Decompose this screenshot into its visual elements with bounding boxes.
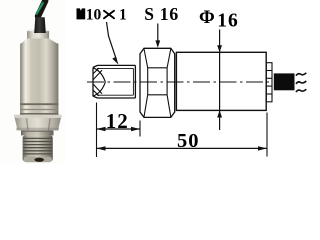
thread root lines <box>97 68 133 95</box>
svg-text:10: 10 <box>86 6 102 23</box>
photo: hex nut <box>14 115 62 130</box>
photo: top cap cylinder <box>27 30 49 40</box>
extension line right of 50 dim <box>266 113 268 157</box>
port cone <box>93 68 105 96</box>
svg-text:Φ: Φ <box>199 7 215 28</box>
black cable boot <box>274 73 295 90</box>
leader for S 16 <box>157 24 159 45</box>
photo: green cable with black sheath <box>37 1 46 16</box>
cable squiggles <box>296 73 306 92</box>
cone hatch <box>93 68 102 96</box>
svg-text:16: 16 <box>217 11 239 32</box>
extension line left (shared by 12 and 50) <box>96 103 98 158</box>
connector step column <box>266 63 272 102</box>
photo: threaded stud <box>23 135 53 161</box>
main body rectangle <box>176 52 266 110</box>
svg-text:1: 1 <box>119 6 127 23</box>
extension line right of 12 dim <box>139 121 141 137</box>
photo: black cable gland <box>34 17 46 33</box>
phi16 dimension line with arrows <box>219 30 221 131</box>
svg-text:50: 50 <box>177 130 200 152</box>
leader for M10x1 <box>107 22 117 60</box>
svg-text:16: 16 <box>160 4 179 24</box>
svg-text:S: S <box>144 4 154 24</box>
photo: white backdrop <box>0 0 66 164</box>
svg-text:12: 12 <box>106 109 129 133</box>
dimension 50 <box>97 147 268 149</box>
label M10x1: condensed solid M <box>77 8 86 19</box>
photo: bottom ring grooves <box>20 103 58 116</box>
hex S16 side view <box>140 48 175 117</box>
photo: main cylinder body <box>20 44 58 105</box>
photo: shoulder bevel <box>20 39 58 45</box>
centerline <box>87 81 272 83</box>
dimension 12 <box>97 128 141 130</box>
photo: stud end face <box>24 157 52 162</box>
photo: neck washer <box>21 130 54 135</box>
photo: port hole at stud tip <box>34 158 44 162</box>
thread M10 side view <box>93 65 135 98</box>
label M10x1: multiplication sign <box>104 11 114 18</box>
